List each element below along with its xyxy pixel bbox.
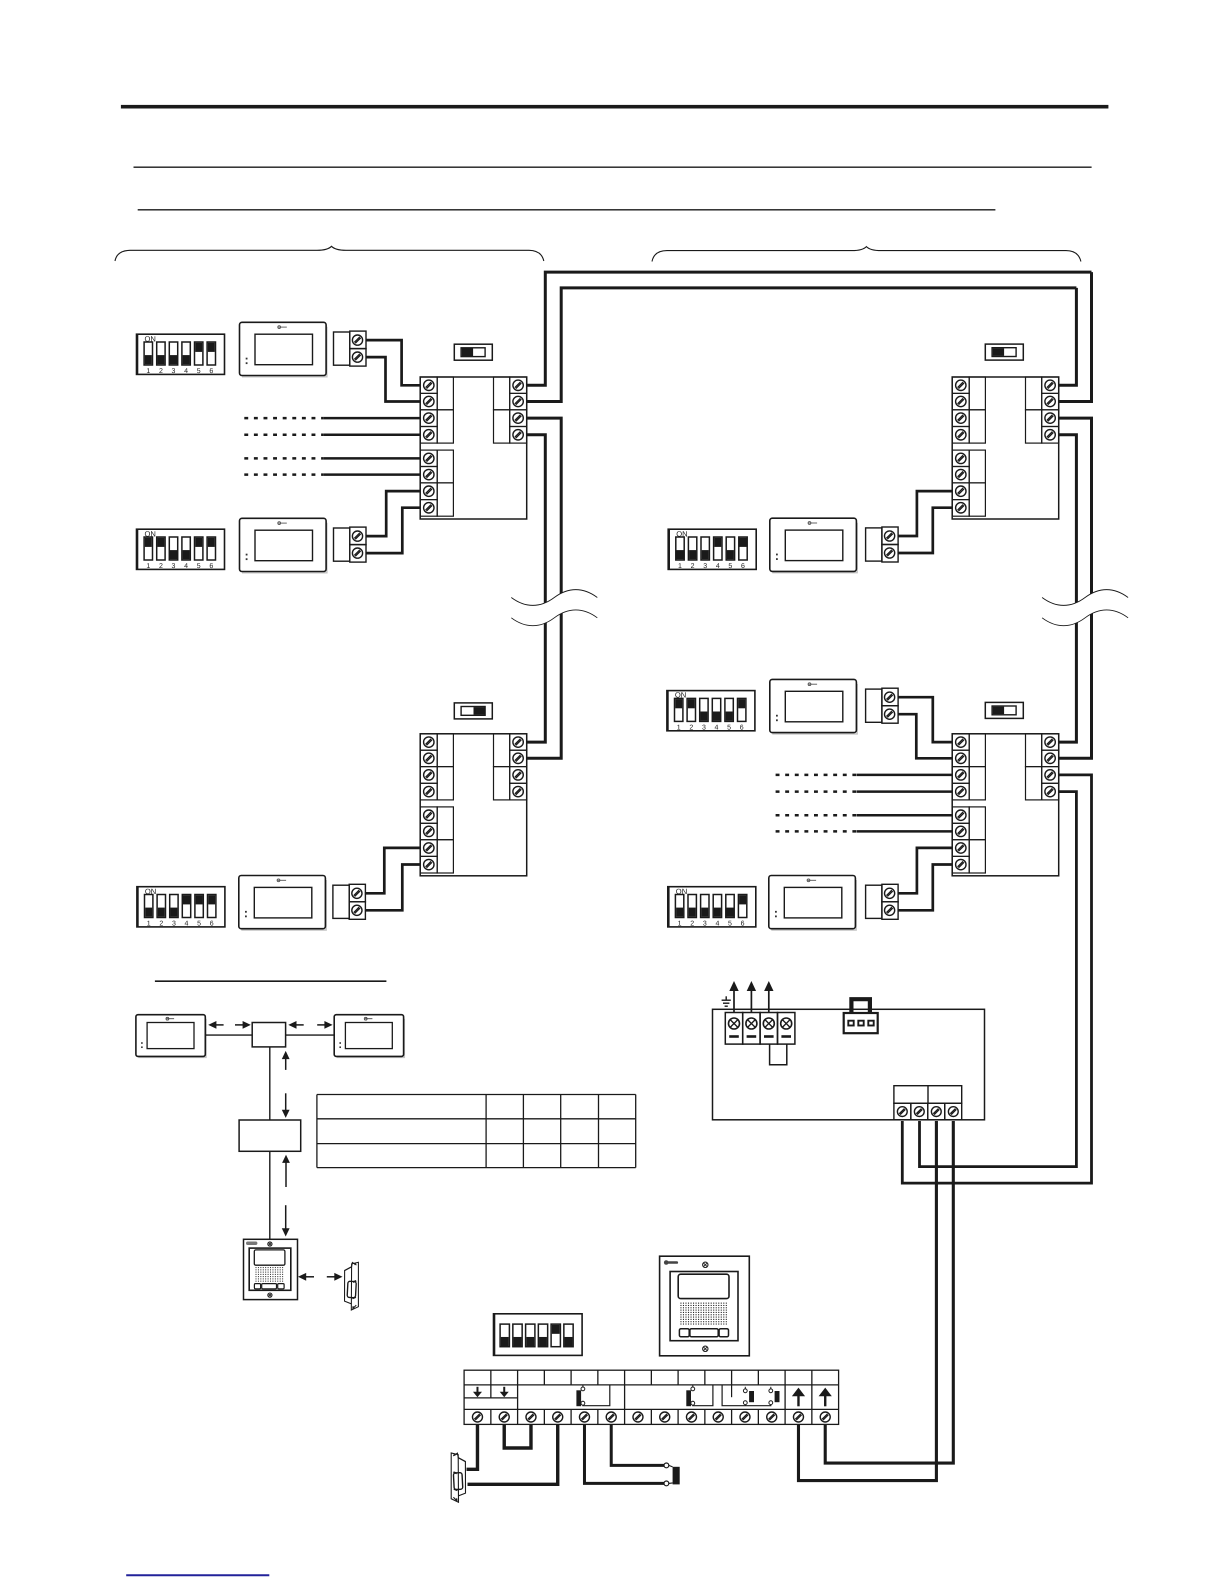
cable break right [1042, 590, 1128, 626]
slide switch of D4 [985, 702, 1023, 718]
slide switch of D1 [454, 344, 492, 360]
power supply unit [713, 1009, 985, 1120]
wire M6 to D4 g2r3 [898, 848, 952, 893]
svg-text:1: 1 [678, 563, 682, 570]
connector of M4 [866, 527, 899, 562]
monitor M1 [240, 322, 327, 377]
connector of M1 [334, 331, 367, 366]
left curly brace [115, 246, 544, 261]
arrow down to door unit [285, 1205, 287, 1231]
arrow to hub right [294, 1024, 304, 1026]
wire bus down to right distributor r1 [1059, 288, 1077, 385]
arrow to MA [214, 1024, 224, 1026]
door strike (upper) [345, 1262, 359, 1310]
arrow up to hub [285, 1057, 287, 1070]
wire left column drop r3 to lower r2 [527, 418, 562, 758]
header thin rule 1 [134, 166, 1092, 168]
dashed wire row g2r2 [244, 473, 323, 476]
svg-text:4: 4 [184, 368, 188, 375]
svg-text:6: 6 [209, 563, 213, 570]
wire M2 to D1 g2r3 [366, 491, 420, 536]
dashed wire row D4 g2r2 [776, 830, 857, 833]
svg-text:3: 3 [703, 563, 707, 570]
monitor M5 [770, 679, 857, 734]
hub box [252, 1023, 285, 1047]
svg-text:1: 1 [146, 368, 150, 375]
connector of M3 [333, 884, 366, 919]
svg-text:6: 6 [209, 368, 213, 375]
wire M6 to D4 g2r4 [898, 865, 952, 911]
wire M1 to D1 r2 [366, 357, 420, 401]
bell push button [664, 1463, 669, 1468]
wire bus down to right distributor r2 [1059, 272, 1092, 401]
monitor M3 [239, 876, 326, 931]
jumper strip2-strip3 [504, 1424, 531, 1448]
wire M1 to D1 r1 [366, 340, 420, 385]
terminal strip [464, 1370, 838, 1424]
monitor M2 [240, 518, 327, 573]
arrow down to adaptor [285, 1093, 287, 1112]
wire strip4 to strike [468, 1424, 558, 1484]
arrow to door unit [304, 1276, 314, 1278]
wire strip1 to strike [467, 1424, 478, 1469]
wire M3 to D2 g2r3 [365, 848, 420, 893]
svg-text:4: 4 [185, 921, 189, 928]
supply connector [844, 1013, 878, 1033]
wire M5 to D4 r1 [898, 697, 952, 742]
svg-text:1: 1 [677, 725, 681, 732]
wire adaptor down to door unit [269, 1151, 271, 1239]
svg-text:5: 5 [197, 368, 201, 375]
earth symbol [722, 996, 731, 1006]
svg-text:5: 5 [728, 921, 732, 928]
fuse holder [770, 1044, 787, 1065]
wire bus riser B (left) [527, 288, 1077, 402]
svg-text:5: 5 [727, 725, 731, 732]
distributor unit D3 (top-right) [952, 377, 1058, 519]
dashed wire row r4 [244, 434, 323, 437]
strip screws [472, 1412, 830, 1422]
svg-text:2: 2 [159, 368, 163, 375]
svg-text:4: 4 [716, 563, 720, 570]
DIP switch S7 (door panel) [494, 1314, 583, 1356]
strip button symbol 2 [691, 1387, 695, 1391]
wire M2 to D1 g2r4 [366, 508, 420, 553]
strip button symbol 3 [743, 1389, 747, 1393]
connector clamp handle [851, 999, 870, 1013]
svg-text:6: 6 [741, 921, 745, 928]
strip button symbol 4 [769, 1389, 773, 1393]
distributor unit D2 (lower-left) [420, 734, 527, 876]
door panel (entrance) [660, 1256, 750, 1356]
wire strip14 to PSU screw4 [825, 1121, 953, 1463]
strip arrows down (cells 1-2) [476, 1387, 478, 1394]
mains terminal block [725, 1013, 795, 1045]
distributor unit D1 (top-left) [420, 377, 527, 519]
arrow to strike [327, 1276, 337, 1278]
mains arrows [733, 988, 735, 1013]
connector of M6 [866, 884, 899, 919]
connector of M5 [866, 688, 899, 723]
monitor MA [136, 1015, 206, 1058]
DIP switch S1 [137, 334, 225, 375]
svg-text:4: 4 [715, 921, 719, 928]
svg-text:3: 3 [702, 725, 706, 732]
footer blue rule [126, 1574, 269, 1576]
door strike (lower) [451, 1453, 465, 1502]
dashed wire row r3 [244, 417, 323, 420]
svg-text:6: 6 [740, 725, 744, 732]
svg-text:6: 6 [741, 563, 745, 570]
svg-text:4: 4 [184, 563, 188, 570]
svg-text:5: 5 [728, 563, 732, 570]
cable break left [511, 590, 597, 626]
svg-text:3: 3 [703, 921, 707, 928]
svg-text:1: 1 [146, 563, 150, 570]
wire bus riser A (left) [527, 272, 1092, 385]
wire M5 to D4 r2 [898, 714, 952, 758]
strip relay contacts wires [731, 1385, 733, 1397]
table [317, 1095, 636, 1168]
dashed wire row D4 r4 [776, 790, 857, 793]
wire left column drop r4 to lower r1 [527, 435, 546, 742]
svg-text:2: 2 [159, 563, 163, 570]
monitor M6 [769, 876, 856, 931]
dashed wire row D4 g2r1 [776, 814, 857, 817]
wire lower-right r3 down to PSU screw1 [902, 775, 1091, 1183]
wire right column drop r4 to lower r1 [1059, 435, 1077, 742]
DIP switch S3 [137, 887, 225, 928]
connector of M2 [334, 527, 367, 562]
DIP switch S5 [667, 691, 755, 732]
DIP switch S2 [137, 529, 225, 570]
wire MA to hub [205, 1034, 252, 1036]
header thin rule 2 [138, 209, 996, 211]
DIP switch S6 [668, 887, 756, 928]
DIP switch S4 [668, 529, 756, 570]
dashed wire row g2r1 [244, 457, 323, 460]
wire lower-right r4 down to PSU screw2 [920, 792, 1077, 1167]
svg-text:3: 3 [172, 921, 176, 928]
slide switch of D2 [454, 703, 492, 719]
wire strip13 to PSU screw3 [798, 1121, 936, 1481]
svg-text:3: 3 [172, 563, 176, 570]
svg-text:2: 2 [690, 921, 694, 928]
arrow to hub left [235, 1024, 245, 1026]
section heading underline [155, 980, 387, 982]
strip arrows up (cells 13-14) [797, 1394, 799, 1407]
right curly brace [652, 247, 1081, 262]
svg-text:1: 1 [147, 921, 151, 928]
svg-text:3: 3 [172, 368, 176, 375]
wire hub to MB [286, 1034, 335, 1036]
dashed wire row D4 r3 [776, 774, 857, 777]
svg-text:4: 4 [715, 725, 719, 732]
wire M4 to D3 g2r3 [898, 491, 952, 536]
arrow up to adaptor [285, 1160, 287, 1187]
svg-text:6: 6 [210, 921, 214, 928]
svg-text:2: 2 [691, 563, 695, 570]
wire M3 to D2 g2r4 [365, 865, 420, 911]
svg-text:5: 5 [197, 563, 201, 570]
slide switch of D3 [985, 344, 1023, 360]
door station (small) [244, 1239, 298, 1299]
svg-text:2: 2 [689, 725, 693, 732]
svg-text:2: 2 [159, 921, 163, 928]
strip button symbol 1 [581, 1387, 585, 1391]
header thick rule [121, 105, 1109, 109]
monitor MB [334, 1015, 404, 1058]
wire right column drop r3 to lower r2 [1059, 418, 1092, 758]
wire hub down to adaptor [269, 1047, 271, 1120]
distributor unit D4 (lower-right) [952, 734, 1058, 876]
arrow to MB [317, 1024, 327, 1026]
svg-text:1: 1 [678, 921, 682, 928]
wire M4 to D3 g2r4 [898, 508, 952, 553]
adaptor box [239, 1120, 301, 1151]
monitor M4 [770, 518, 857, 573]
wire strip5 to button [584, 1424, 664, 1483]
wire strip6 to button [611, 1424, 664, 1465]
output terminal block [894, 1086, 962, 1104]
svg-text:5: 5 [197, 921, 201, 928]
